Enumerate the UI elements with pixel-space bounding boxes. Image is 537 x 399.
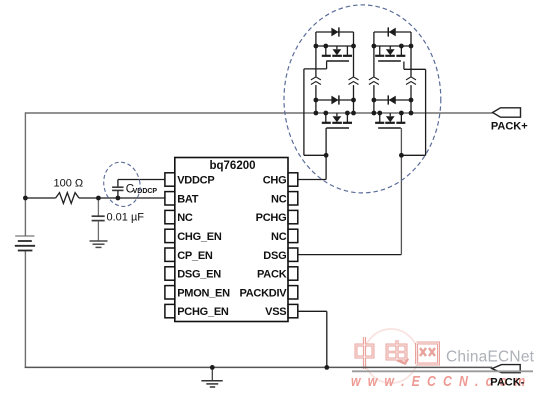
- svg-text:PMON_EN: PMON_EN: [177, 287, 230, 299]
- svg-text:ChinaECNet: ChinaECNet: [446, 349, 535, 366]
- svg-text:VDDCP: VDDCP: [177, 175, 214, 187]
- svg-text:NC: NC: [177, 212, 193, 224]
- svg-text:100 Ω: 100 Ω: [54, 178, 84, 190]
- svg-text:DSG: DSG: [263, 250, 286, 262]
- svg-text:CHG: CHG: [263, 175, 287, 187]
- svg-text:CHG_EN: CHG_EN: [177, 231, 222, 243]
- svg-text:VDDCP: VDDCP: [133, 188, 158, 195]
- svg-text:0.01 µF: 0.01 µF: [107, 212, 145, 224]
- svg-text:DSG_EN: DSG_EN: [177, 269, 221, 281]
- svg-text:PACK+: PACK+: [491, 121, 528, 133]
- svg-text:BAT: BAT: [177, 193, 199, 205]
- svg-text:PACKDIV: PACKDIV: [239, 287, 287, 299]
- svg-text:PACK-: PACK-: [490, 376, 524, 388]
- svg-text:VSS: VSS: [265, 306, 286, 318]
- svg-text:PACK: PACK: [257, 269, 287, 281]
- svg-text:NC: NC: [271, 231, 287, 243]
- svg-text:CP_EN: CP_EN: [177, 250, 213, 262]
- svg-text:PCHG_EN: PCHG_EN: [177, 306, 229, 318]
- svg-text:bq76200: bq76200: [209, 160, 255, 172]
- svg-text:NC: NC: [271, 193, 287, 205]
- svg-text:PCHG: PCHG: [256, 212, 287, 224]
